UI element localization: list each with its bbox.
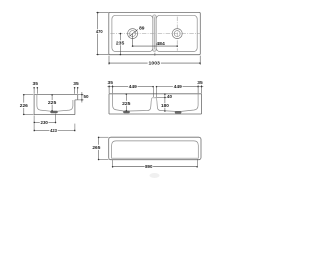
svg-text:235: 235 (116, 41, 125, 47)
dim 890 extensions (111, 160, 113, 168)
svg-text:35: 35 (108, 80, 114, 86)
dim 890 line (112, 166, 144, 168)
dim 265 extensions (98, 136, 109, 138)
dim 35 right front ticks (197, 85, 199, 93)
svg-text:180: 180 (161, 103, 169, 109)
front section bottom (109, 113, 202, 115)
elevation panel (112, 141, 199, 158)
front section bowls interior (113, 94, 199, 112)
svg-text:35: 35 (73, 81, 79, 87)
svg-text:1003: 1003 (149, 60, 161, 66)
front section rim top (109, 93, 202, 95)
svg-text:225: 225 (122, 101, 131, 107)
dim 265 line (98, 137, 100, 145)
dim 40 extension (156, 97, 167, 99)
dim 449 divider ticks (152, 87, 154, 97)
svg-text:890: 890 (145, 164, 153, 170)
svg-text:50: 50 (84, 94, 89, 100)
side drain (51, 111, 58, 113)
center divider capsule (153, 15, 157, 51)
dim 180 line (164, 98, 166, 104)
left tap hole inner (130, 31, 136, 37)
side view rim top (34, 94, 78, 96)
horizontal centerline (110, 33, 200, 35)
right tap hole inner (174, 31, 180, 37)
dim 449 right line (156, 86, 173, 88)
left tap hole outer (128, 29, 138, 39)
side view right wall (74, 100, 76, 115)
divider center ridge (153, 17, 155, 49)
dim 470 line (97, 12, 99, 29)
dim 235 line (119, 34, 121, 41)
dim 50 bracket (78, 94, 84, 96)
front left drain (123, 111, 129, 113)
svg-text:230: 230 (41, 120, 49, 126)
faint watermark smudge (150, 173, 160, 178)
side view bottom (34, 114, 75, 116)
svg-text:484: 484 (156, 41, 165, 47)
side view right lip step (75, 99, 78, 101)
vertical centerline right hole (176, 17, 178, 51)
svg-text:449: 449 (129, 84, 137, 90)
front section right wall (201, 94, 203, 114)
svg-text:265: 265 (92, 145, 100, 151)
elevation outer (109, 137, 201, 160)
left bowl (112, 15, 153, 51)
svg-text:89: 89 (139, 25, 145, 31)
svg-text:470: 470 (96, 29, 103, 35)
svg-text:226: 226 (20, 103, 28, 109)
right bowl (156, 15, 197, 51)
front section left wall (108, 94, 110, 114)
dim 230 extensions (33, 115, 35, 123)
svg-text:35: 35 (33, 81, 39, 87)
svg-text:423: 423 (50, 128, 57, 134)
dim 423 line (34, 129, 49, 131)
dim 40 line (164, 94, 166, 98)
dim 226 extensions (23, 94, 34, 96)
dim 1003 extension right (199, 56, 201, 65)
dim 35 left ticks (33, 88, 35, 94)
side view left wall (33, 95, 35, 115)
dim 226 line (23, 95, 25, 103)
dim 470 extension top (96, 11, 108, 13)
side view right lip outer (77, 95, 79, 100)
svg-text:225: 225 (48, 100, 57, 106)
dim 423 extensions (74, 124, 76, 132)
dim 225 front line (125, 94, 127, 101)
dim 484 line (133, 45, 178, 47)
dim 470 extension bottom (96, 54, 108, 56)
dim 1003 line (109, 62, 148, 64)
front right drain (175, 111, 181, 113)
leader line dia 89 (129, 30, 137, 37)
svg-text:449: 449 (174, 84, 182, 90)
right tap hole outer (172, 29, 182, 39)
divider tick on front rim (154, 53, 156, 56)
dim 449 left line (113, 86, 129, 88)
svg-text:35: 35 (197, 80, 203, 86)
dim 35 right ticks (74, 88, 76, 94)
dim 484 drop line left (132, 34, 134, 47)
svg-text:40: 40 (167, 94, 172, 100)
dim 225 side line (51, 95, 53, 100)
dim 35 left front ticks (108, 85, 110, 93)
side bowl interior (37, 95, 73, 112)
top view outer rim rect (109, 12, 201, 54)
dim 230 line (34, 121, 40, 123)
dim 1003 extension left (108, 56, 110, 65)
